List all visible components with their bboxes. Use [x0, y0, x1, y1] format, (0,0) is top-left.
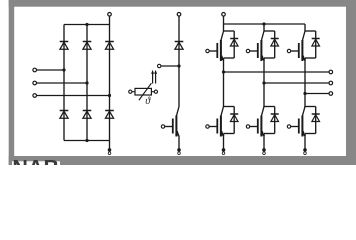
svg-text:NAB: NAB — [12, 155, 59, 165]
